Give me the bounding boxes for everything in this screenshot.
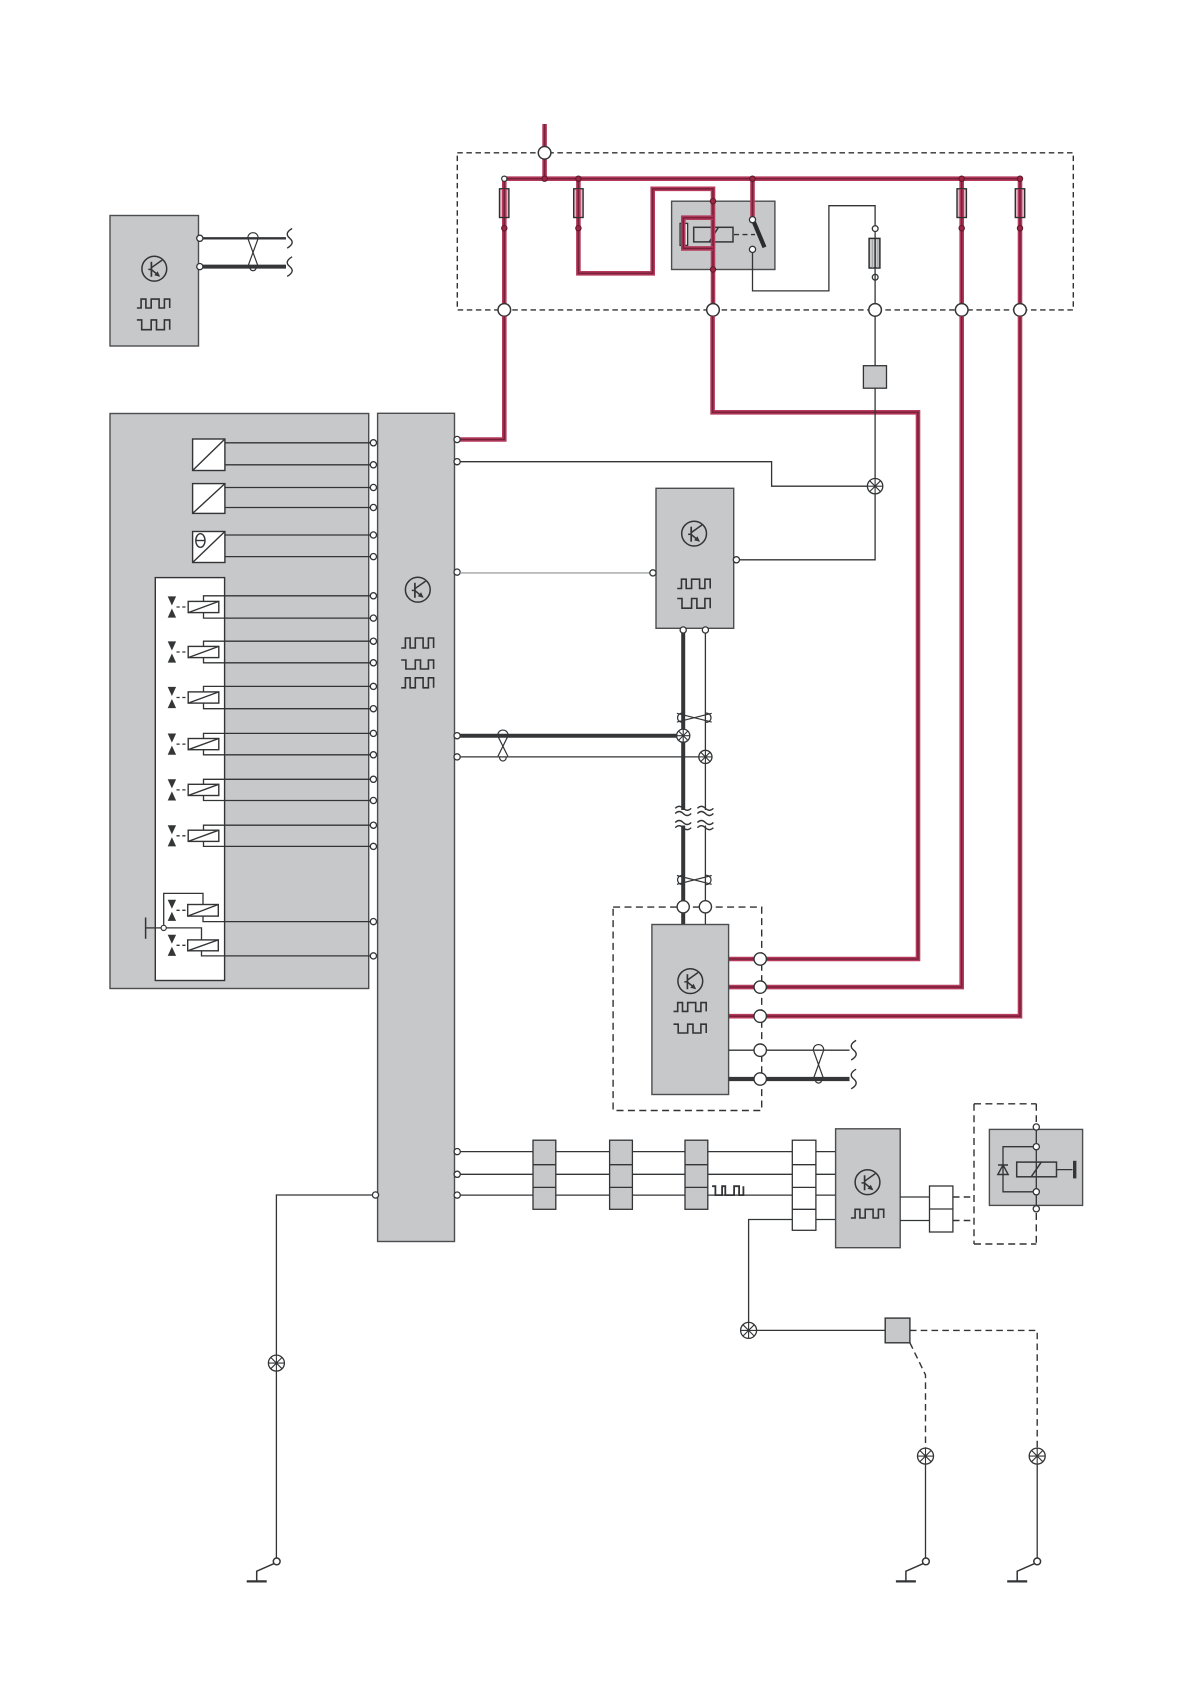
- injector 6 coil: [188, 830, 219, 841]
- relay R2 terminals: [1033, 1124, 1039, 1212]
- fuse F2 branch wire: [578, 179, 713, 310]
- cable continuation marks on M1 wires: [287, 229, 292, 277]
- control module M1 (top left): [110, 216, 199, 347]
- injector 7 supply wire: [164, 893, 203, 928]
- connector block at relay: [930, 1186, 953, 1232]
- ground switch left: [247, 1558, 280, 1581]
- injector 4 link: [177, 743, 189, 745]
- bus wire 2: [460, 1173, 792, 1175]
- injector 1 link: [177, 606, 189, 608]
- fusebox exit connector 1: [498, 304, 511, 317]
- control module M2: [656, 488, 734, 628]
- fuse F1 top connector: [502, 176, 507, 181]
- wire resistor to fusebox edge: [874, 232, 876, 310]
- dashed wire to switch 1: [910, 1343, 926, 1448]
- injector 6 pins: [370, 822, 376, 849]
- wire inline connector to splice: [874, 388, 876, 478]
- module M2 left pin: [650, 570, 656, 576]
- engine ECU connector strip: [378, 413, 455, 1241]
- module M3 red pin connectors: [754, 953, 766, 1023]
- inline connector column 1: [533, 1140, 556, 1209]
- K-line thin wire (vertical): [704, 628, 706, 924]
- module M4 transistor symbol: [855, 1170, 880, 1195]
- ground switch middle: [896, 1558, 929, 1581]
- inline connector block: [863, 366, 886, 389]
- connector on fusebox top edge: [538, 147, 551, 160]
- wire pair from M1: [201, 238, 286, 266]
- injector 4 valve: [168, 734, 176, 755]
- fuse F4 top dot: [1017, 176, 1022, 181]
- ECU lamp output pin: [454, 459, 460, 465]
- inline connector column 2: [610, 1140, 633, 1209]
- fuse F4 feed wire: [1018, 179, 1023, 310]
- module M3 output thin wire: [729, 1049, 850, 1051]
- module M3 pulse row 2: [674, 1024, 707, 1033]
- relay switch arm: [754, 222, 765, 247]
- injector 1 wires: [204, 596, 371, 618]
- switch 2 splice: [1029, 1448, 1045, 1464]
- injector 5 wires: [204, 779, 371, 800]
- fuse F1 bottom dot: [502, 226, 507, 231]
- injector 5 coil: [188, 784, 219, 795]
- sensor S1: [193, 439, 225, 471]
- injector 4 pins: [370, 730, 376, 758]
- switch 2 wire: [1036, 1464, 1038, 1558]
- inline connector column 3: [685, 1140, 708, 1209]
- fuse F2 top dot: [576, 176, 581, 181]
- wire to junction block: [749, 1322, 886, 1338]
- ECU pulse row 2: [401, 660, 433, 669]
- fusebox exit connector 3: [869, 304, 882, 317]
- fuse F1 wire overlay: [502, 189, 507, 217]
- ECU supply pin: [454, 436, 460, 442]
- fuse F4: [1015, 189, 1024, 218]
- injector 3 coil: [188, 692, 219, 703]
- injector 8 valve: [168, 935, 176, 956]
- fusebox dashed outline: [457, 153, 1073, 310]
- injector 2 valve: [168, 641, 176, 662]
- signal symbol on bus wire 3: [712, 1186, 743, 1195]
- switch 1 wire: [925, 1464, 927, 1558]
- sensor S2 wires: [225, 488, 370, 508]
- injector 2 wires: [204, 641, 371, 663]
- main relay supply wire to switch: [750, 179, 755, 217]
- relay R2 through wire: [1035, 1127, 1037, 1209]
- splice on thin K-line: [699, 750, 712, 763]
- main relay body: [672, 201, 775, 269]
- fuse F1 feed wire: [502, 179, 507, 310]
- module M3 output thick wire: [729, 1077, 850, 1081]
- sensor S2 pins: [370, 484, 376, 510]
- injector 4 wires: [204, 733, 371, 754]
- wire ECU to indicator splice: [460, 462, 867, 487]
- wire from below to connector: [749, 1220, 793, 1323]
- gray wire ECU to module M2: [460, 572, 650, 574]
- fuse F3 feed wire: [959, 179, 964, 310]
- battery supply wire: [542, 124, 547, 181]
- main relay coil core plate: [680, 223, 688, 245]
- pulse symbol row 2 of M1: [137, 320, 170, 330]
- module M3 transistor symbol: [678, 969, 703, 994]
- fusebox exit connector 5: [1014, 304, 1027, 317]
- sensor S1 pins: [370, 440, 376, 468]
- red feed wire to module M3 pin2: [729, 316, 962, 987]
- injector 6 valve: [168, 825, 176, 846]
- twisted-pair marker on M3 outputs: [813, 1045, 823, 1084]
- dashed wires to relay box: [953, 1197, 974, 1221]
- module M3 output connectors: [754, 1044, 766, 1085]
- relay R2 diode branch wire: [1003, 1147, 1036, 1192]
- splice on thick K-line: [677, 729, 690, 742]
- cable continuation marks on M3 outputs: [851, 1040, 856, 1088]
- module M2 pulse row 2: [677, 599, 710, 609]
- injector 8 pin: [370, 953, 376, 959]
- wire splice to module M2: [739, 494, 875, 560]
- fuse F4 bottom dot: [1017, 226, 1022, 231]
- control module M3: [652, 925, 729, 1095]
- bus wire 1: [460, 1151, 792, 1153]
- resistor bottom terminal: [872, 274, 878, 280]
- sensor S1 wires: [225, 443, 370, 465]
- injector 8 supply wire: [164, 928, 202, 940]
- junction block splice: [741, 1322, 757, 1338]
- injector 1 valve: [168, 596, 176, 617]
- ECU pulse row 1: [401, 638, 433, 648]
- injector 8 link: [177, 944, 188, 946]
- module M2 right pin: [733, 557, 739, 563]
- fuse F3 wire overlay: [959, 189, 964, 217]
- fuse F3 top dot: [959, 176, 964, 181]
- injector 3 valve: [168, 687, 176, 708]
- indicator splice: [867, 479, 882, 494]
- injector 8 output wire: [202, 951, 371, 956]
- injector 5 valve: [168, 779, 176, 800]
- module M2 transistor symbol: [682, 521, 707, 546]
- twisted-pair marker on horizontal pair: [498, 730, 508, 761]
- transistor symbol of module M1: [142, 256, 167, 281]
- shield connection bar: [146, 918, 162, 939]
- relay R2 coil: [1017, 1162, 1057, 1177]
- ground wire from ECU: [276, 1195, 374, 1558]
- K-line thick wire (vertical): [681, 628, 685, 924]
- temperature sensor S3 pins: [370, 532, 376, 560]
- fuse F4 wire overlay: [1018, 189, 1023, 217]
- fuse F1: [500, 189, 509, 218]
- injector 3 wires: [204, 686, 371, 708]
- fuse F2: [574, 189, 583, 218]
- relay actuation dashed link: [734, 234, 755, 236]
- relay R2 armature: [1056, 1161, 1075, 1179]
- module M2 bottom pins: [680, 627, 708, 633]
- twisted-pair marker upper: [677, 713, 712, 722]
- injector 8 coil: [188, 940, 219, 951]
- junction dot at relay switch feed: [750, 176, 755, 181]
- switch 1 splice: [918, 1448, 934, 1464]
- relay coil loop wire: [683, 218, 713, 249]
- red feed wire to module M3 pin1: [713, 316, 918, 959]
- temperature sensor S3: [193, 532, 225, 563]
- dashed wire to switch 2: [910, 1330, 1037, 1448]
- fuse F2 bottom dot: [576, 226, 581, 231]
- main relay coil: [694, 227, 733, 242]
- injector 6 wires: [204, 825, 371, 846]
- module M3 dashed outline: [613, 907, 762, 1110]
- injector 4 coil: [188, 739, 219, 750]
- relay R2 body: [989, 1129, 1082, 1205]
- power distribution bus: [502, 176, 1022, 181]
- twisted-pair marker on M1 wires: [248, 233, 258, 271]
- injector 7 coil: [188, 905, 219, 917]
- ECU bottom pins: [454, 1149, 460, 1199]
- resistor top terminal: [872, 226, 878, 232]
- K-line thick horizontal wire: [460, 734, 683, 738]
- twisted-pair marker lower: [677, 875, 712, 884]
- relay R2 dashed outline: [974, 1104, 1036, 1244]
- relay R2 diode: [998, 1165, 1008, 1175]
- junction block: [885, 1318, 910, 1343]
- red feed wire to engine ECU: [460, 316, 504, 439]
- connector block at module M4: [792, 1140, 816, 1230]
- fuse F2 wire overlay: [576, 189, 581, 217]
- resistor: [869, 238, 880, 268]
- injector 6 link: [177, 835, 189, 837]
- injector 2 coil: [188, 646, 219, 657]
- injector 5 pins: [370, 776, 376, 803]
- fuse F3: [957, 189, 966, 218]
- injector 1 pins: [370, 593, 376, 622]
- red feed wire to module M3 pin3: [729, 316, 1020, 1016]
- module M3 top connectors: [677, 901, 711, 913]
- ECU gray wire pin: [454, 569, 460, 575]
- pulse symbol row 1 of M1: [137, 299, 170, 308]
- junction dot on bus: [542, 176, 547, 181]
- module M3 pulse row 1: [674, 1003, 707, 1012]
- module M4 output wires: [900, 1197, 929, 1221]
- sensor S2: [193, 484, 225, 514]
- injector 7 link: [177, 909, 188, 911]
- wire connector3 to inline connector: [874, 316, 876, 367]
- injector 3 link: [177, 697, 189, 699]
- injector 5 link: [177, 789, 189, 791]
- fusebox exit connector 2: [707, 304, 720, 317]
- injector 1 coil: [188, 601, 219, 612]
- ECU K-line pins: [454, 733, 460, 760]
- injector 7 valve: [168, 900, 176, 921]
- wires connector to module M4: [816, 1152, 836, 1220]
- ECU pulse row 3: [401, 678, 433, 688]
- control module M4: [836, 1129, 901, 1248]
- ECU ground pin: [372, 1192, 378, 1198]
- module M2 pulse row 1: [677, 579, 710, 588]
- injector common node: [161, 925, 166, 930]
- injector group box: [155, 578, 224, 981]
- injector 2 link: [177, 651, 189, 653]
- wire from relay switch to resistor: [753, 206, 876, 291]
- relay coil feed dots: [710, 199, 715, 273]
- relay switch terminals: [749, 217, 755, 253]
- fusebox exit connector 4: [955, 304, 968, 317]
- bus wire 3: [460, 1194, 792, 1196]
- wire interruption marks: [675, 806, 713, 829]
- injector 3 pins: [370, 683, 376, 712]
- temperature sensor S3 wires: [225, 535, 370, 557]
- fuse F3 bottom dot: [959, 226, 964, 231]
- injector 2 pins: [370, 638, 376, 666]
- injector 7 output wire: [203, 916, 370, 922]
- terminal pins of M1: [197, 235, 203, 270]
- ground wire splice: [268, 1355, 284, 1371]
- module M4 pulse row: [851, 1209, 884, 1218]
- ECU transistor symbol: [405, 577, 430, 602]
- injector 7 pin: [370, 919, 376, 925]
- K-line thin horizontal wire: [460, 756, 705, 758]
- ground switch right: [1007, 1558, 1040, 1581]
- engine ECU sensor section: [110, 414, 369, 989]
